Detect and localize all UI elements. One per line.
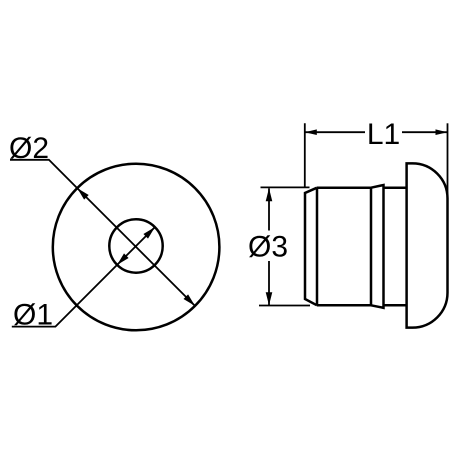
side view neck top line bbox=[384, 186, 407, 189]
side view body top line bbox=[317, 186, 371, 189]
arrowhead D3 top bbox=[266, 188, 273, 201]
svg-text:Ø3: Ø3 bbox=[248, 231, 288, 264]
svg-text:L1: L1 bbox=[367, 118, 400, 151]
dimension line D2 (diagonal across outer circle) bbox=[77, 188, 195, 306]
dimension line D1 (diagonal across inner circle) bbox=[117, 227, 155, 265]
side view chamfer rim line bbox=[316, 188, 319, 306]
extension line L1 right bbox=[447, 123, 449, 200]
arrowhead D2 upper-left bbox=[77, 188, 89, 200]
arrowhead L1 right bbox=[436, 129, 448, 135]
side view body left face (chamfered) bbox=[305, 188, 317, 306]
front view inner circle (hole) bbox=[109, 219, 162, 272]
arrowhead L1 left bbox=[305, 129, 317, 135]
extension line D3 bottom bbox=[259, 305, 310, 307]
extension line L1 left bbox=[304, 123, 306, 187]
side view neck bottom line bbox=[384, 304, 407, 307]
arrowhead D3 bottom bbox=[266, 292, 273, 305]
side view body right edge bbox=[370, 188, 373, 306]
extension line D3 top bbox=[261, 186, 310, 188]
side view body bottom line bbox=[317, 304, 371, 307]
front view outer circle (body OD) bbox=[53, 164, 220, 331]
side view dome head outline bbox=[407, 163, 448, 327]
svg-text:Ø1: Ø1 bbox=[13, 299, 53, 332]
leader line D2 bbox=[10, 160, 77, 188]
dimension line D3 lower segment bbox=[268, 261, 270, 305]
arrowhead D1 lower-left bbox=[117, 253, 129, 265]
dimension line D3 upper segment bbox=[268, 188, 270, 230]
side view rib bbox=[371, 185, 384, 308]
arrowhead D2 lower-right bbox=[184, 294, 196, 306]
svg-text:Ø2: Ø2 bbox=[9, 132, 49, 165]
dimension line L1 left segment bbox=[305, 131, 365, 133]
arrowhead D1 upper-right bbox=[143, 227, 155, 239]
leader line D1 bbox=[12, 265, 117, 327]
dimension line L1 right segment bbox=[402, 131, 448, 133]
